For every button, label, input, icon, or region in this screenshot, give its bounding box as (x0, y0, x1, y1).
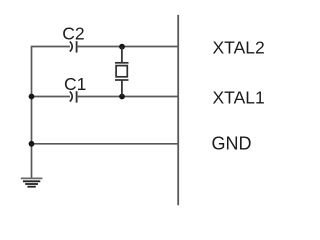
label C2 (62, 23, 84, 43)
svg-text:C2: C2 (62, 23, 84, 43)
svg-text:C1: C1 (64, 74, 86, 94)
crystal Y1 (115, 47, 129, 97)
svg-text:XTAL2: XTAL2 (213, 38, 265, 58)
svg-text:XTAL1: XTAL1 (213, 88, 265, 108)
pin label XTAL2 (213, 38, 265, 58)
svg-text:GND: GND (212, 133, 252, 153)
node: junction of XTAL1 wire and crystal bottom (119, 94, 125, 100)
wire: left bus vertical from top corner down to ground (31, 46, 33, 179)
label C1 (64, 74, 86, 94)
ground (21, 178, 43, 186)
wire: XTAL1 row, left segment from left bus to C1 (32, 96, 71, 98)
node: junction of XTAL2 wire and crystal top (119, 44, 125, 50)
wire: XTAL2 row, left segment from left bus corner to C2 (32, 46, 71, 48)
wire: XTAL2 row, from C2 to device edge (77, 46, 179, 48)
node: junction of left bus and XTAL1 wire (29, 94, 35, 100)
capacitor C2 (70, 41, 77, 52)
capacitor C1 (70, 91, 77, 102)
pin label GND (212, 133, 252, 153)
wire: XTAL1 row, from C1 to device edge (77, 96, 179, 98)
node: junction of left bus and GND wire (29, 141, 35, 147)
device edge (IC pin boundary) (177, 15, 179, 205)
wire: GND row from left bus to device edge (32, 143, 179, 145)
pin label XTAL1 (213, 88, 265, 108)
